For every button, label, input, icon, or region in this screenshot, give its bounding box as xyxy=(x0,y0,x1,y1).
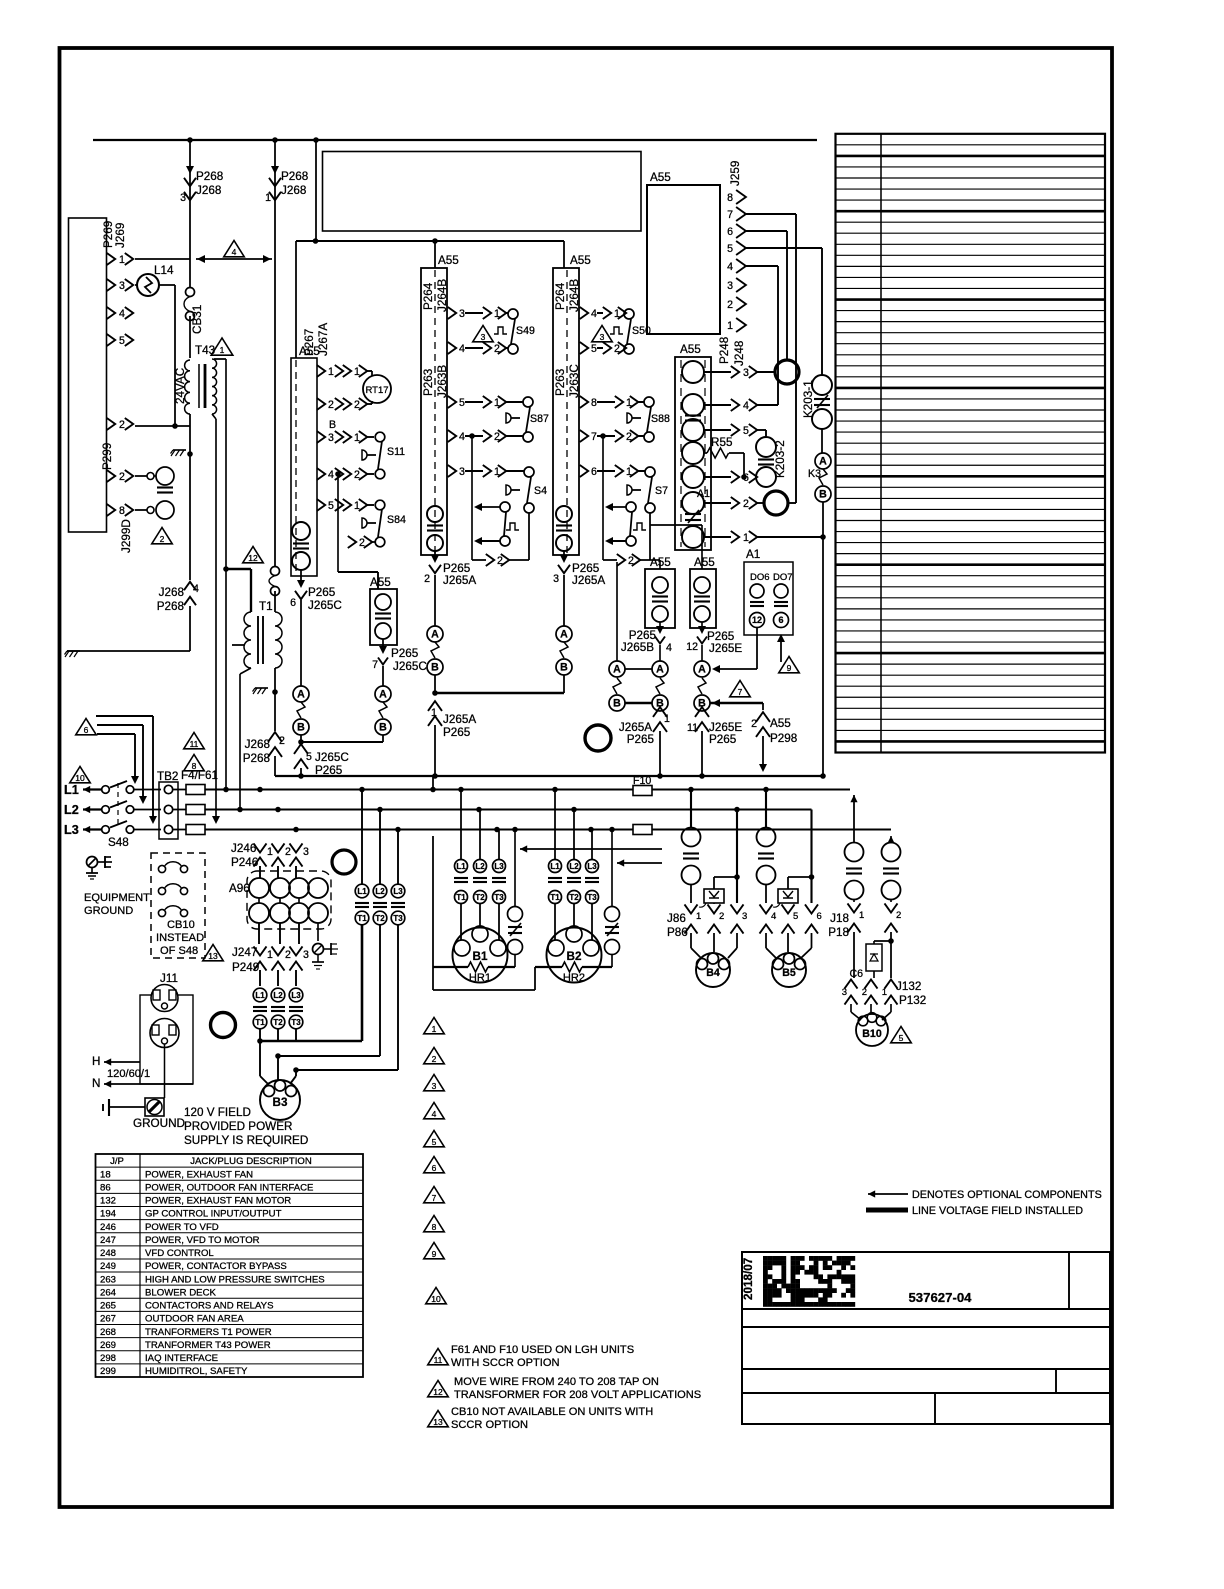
wire L3 row xyxy=(173,829,186,831)
aux contact diode B4 xyxy=(714,876,737,878)
svg-text:S49: S49 xyxy=(516,325,535,337)
svg-text:A55: A55 xyxy=(650,171,671,184)
svg-text:J/P: J/P xyxy=(110,1156,124,1167)
note triangle 7 list xyxy=(424,1187,445,1203)
svg-text:120 V FIELD: 120 V FIELD xyxy=(184,1106,251,1119)
connector A55 P298-2 drop xyxy=(710,702,763,705)
svg-text:L1: L1 xyxy=(456,862,466,871)
svg-text:P299: P299 xyxy=(101,443,114,470)
svg-text:5: 5 xyxy=(459,397,465,409)
svg-text:3: 3 xyxy=(600,332,605,342)
svg-text:120/60/1: 120/60/1 xyxy=(107,1068,150,1080)
note triangle 8 list xyxy=(424,1216,445,1232)
svg-text:POWER TO VFD: POWER TO VFD xyxy=(145,1222,219,1233)
wire field arrow B2 xyxy=(617,859,624,866)
svg-text:2: 2 xyxy=(432,1054,437,1064)
wire L1 row xyxy=(173,789,186,791)
contactor coil in J267A column xyxy=(292,522,310,540)
switch S11 xyxy=(375,432,385,442)
svg-text:L1: L1 xyxy=(357,887,367,896)
ring optional A96 xyxy=(332,850,356,874)
svg-text:LINE VOLTAGE FIELD INSTALLED: LINE VOLTAGE FIELD INSTALLED xyxy=(912,1205,1083,1217)
pins 3-1 col1 to S49 xyxy=(448,307,456,319)
motor B3 xyxy=(260,1080,300,1120)
svg-text:3: 3 xyxy=(743,367,749,379)
wire latch2 to box2 xyxy=(650,524,702,526)
svg-text:S84: S84 xyxy=(387,514,406,526)
svg-text:T3: T3 xyxy=(494,893,504,902)
contactor coil col1 xyxy=(427,506,443,522)
equipment ground symbol xyxy=(87,857,98,868)
motor B10 wires xyxy=(850,1004,852,1012)
note triangle 5 list xyxy=(424,1131,445,1147)
svg-text:A55: A55 xyxy=(570,254,591,267)
svg-text:N: N xyxy=(92,1077,100,1090)
svg-text:J11: J11 xyxy=(160,972,178,985)
switch S7 xyxy=(645,467,655,477)
svg-text:9: 9 xyxy=(432,1249,437,1259)
svg-text:6: 6 xyxy=(817,911,822,922)
svg-text:J268: J268 xyxy=(245,738,270,751)
pins 8-1 col2 to S88 xyxy=(580,396,588,408)
svg-text:A: A xyxy=(379,689,387,701)
svg-text:J246: J246 xyxy=(231,842,256,855)
svg-text:1: 1 xyxy=(664,713,670,725)
pins 4-2 col1 xyxy=(448,342,456,354)
svg-text:HUMIDITROL, SAFETY: HUMIDITROL, SAFETY xyxy=(145,1366,248,1377)
svg-text:7: 7 xyxy=(432,1193,437,1203)
svg-text:132: 132 xyxy=(100,1196,116,1207)
table jack/plug xyxy=(96,1154,364,1377)
contactor column B4 pin1 xyxy=(690,790,692,828)
motor B5 xyxy=(772,953,806,987)
svg-text:B: B xyxy=(560,662,568,674)
pin2 J248 xyxy=(704,502,731,504)
svg-text:265: 265 xyxy=(100,1301,116,1312)
ground A96 xyxy=(313,944,324,955)
svg-text:T1: T1 xyxy=(550,893,560,902)
wire ground run xyxy=(67,650,190,652)
svg-text:263: 263 xyxy=(100,1274,116,1285)
pin 5 J269 xyxy=(107,334,115,346)
note triangle 6 xyxy=(76,719,97,735)
svg-text:L14: L14 xyxy=(154,264,174,277)
ring optional pin2 xyxy=(764,491,788,515)
svg-text:J268: J268 xyxy=(159,586,184,599)
pin 8 J299D xyxy=(107,504,115,516)
svg-text:5: 5 xyxy=(119,335,125,347)
wire latch2 to pair1 xyxy=(616,562,618,661)
connector J265A pin1 mid to bus xyxy=(653,707,667,717)
svg-text:J263C: J263C xyxy=(568,364,581,398)
svg-text:SUPPLY IS REQUIRED: SUPPLY IS REQUIRED xyxy=(184,1134,308,1147)
svg-text:B: B xyxy=(297,722,305,734)
svg-text:GP CONTROL INPUT/OUTPUT: GP CONTROL INPUT/OUTPUT xyxy=(145,1209,282,1220)
wires to J132 xyxy=(853,932,855,978)
svg-text:24VAC: 24VAC xyxy=(174,368,187,404)
svg-text:4: 4 xyxy=(232,247,237,257)
connector J265C pin5 to bus xyxy=(294,744,308,754)
svg-text:3: 3 xyxy=(432,1081,437,1091)
ring optional J11 xyxy=(211,1013,236,1038)
svg-text:A55: A55 xyxy=(680,343,701,356)
svg-text:B: B xyxy=(431,662,439,674)
exit J265E-12 xyxy=(701,622,703,630)
relay K203-2 xyxy=(756,437,776,457)
pin 2 J269 xyxy=(107,418,115,430)
svg-text:4: 4 xyxy=(328,469,334,481)
svg-text:267: 267 xyxy=(100,1314,116,1325)
note triangle 3 col1 xyxy=(473,326,494,342)
svg-text:A: A xyxy=(613,664,621,676)
svg-text:P265: P265 xyxy=(308,586,336,599)
svg-text:A: A xyxy=(560,629,568,641)
svg-text:248: 248 xyxy=(100,1248,116,1259)
svg-text:2: 2 xyxy=(119,419,125,431)
svg-text:18: 18 xyxy=(100,1169,111,1180)
svg-text:264: 264 xyxy=(100,1287,117,1298)
svg-text:SCCR OPTION: SCCR OPTION xyxy=(451,1419,528,1431)
wire DO7 arrow up xyxy=(780,640,782,662)
capacitor C6 xyxy=(874,940,891,942)
svg-text:A: A xyxy=(297,689,305,701)
wire B-B link thick xyxy=(625,702,652,705)
svg-text:5: 5 xyxy=(306,751,312,763)
svg-text:P263: P263 xyxy=(554,369,567,396)
note triangle 4 xyxy=(224,241,245,257)
svg-text:P265: P265 xyxy=(443,726,471,739)
svg-text:269: 269 xyxy=(100,1340,116,1351)
svg-text:S4: S4 xyxy=(534,485,547,497)
svg-text:BLOWER DECK: BLOWER DECK xyxy=(145,1287,217,1298)
relay contact A-B left xyxy=(293,686,309,702)
wire under-box header y=241 xyxy=(296,240,564,242)
exit P265/J265A-2 col1 xyxy=(434,551,436,558)
wire latch2 to box1 xyxy=(650,559,660,561)
svg-text:11: 11 xyxy=(190,739,199,749)
svg-text:86: 86 xyxy=(100,1182,111,1193)
switch S84 xyxy=(375,500,385,510)
svg-text:CB10: CB10 xyxy=(167,919,195,931)
svg-text:11: 11 xyxy=(434,1355,443,1365)
pins 5-2 col2 xyxy=(580,342,588,354)
wire T43 secondary top lead xyxy=(214,358,226,360)
svg-text:4: 4 xyxy=(591,308,597,320)
svg-text:L1: L1 xyxy=(255,991,265,1000)
contactor coil col2 xyxy=(556,506,572,522)
svg-text:JACK/PLUG DESCRIPTION: JACK/PLUG DESCRIPTION xyxy=(190,1156,312,1167)
relay K203-1 xyxy=(812,375,832,395)
svg-text:J264B: J264B xyxy=(568,279,581,312)
svg-text:8: 8 xyxy=(727,192,733,204)
wire K31 to bus xyxy=(822,537,824,776)
svg-text:4: 4 xyxy=(727,261,733,273)
svg-text:J259: J259 xyxy=(729,161,742,186)
svg-text:S48: S48 xyxy=(108,836,129,849)
svg-text:J264B: J264B xyxy=(436,279,449,312)
pins 5-1 col1 to S87 xyxy=(448,396,456,408)
svg-text:A1: A1 xyxy=(697,488,710,500)
svg-text:12: 12 xyxy=(686,641,698,653)
capacitor column B2 xyxy=(611,830,613,908)
svg-text:EQUIPMENT: EQUIPMENT xyxy=(84,892,150,904)
motor B5 wires xyxy=(765,933,767,948)
note triangle 2 list xyxy=(424,1048,445,1064)
svg-text:J267A: J267A xyxy=(317,323,330,356)
note triangle 12 xyxy=(243,547,264,563)
note triangle 7 xyxy=(730,681,751,697)
svg-text:P248: P248 xyxy=(718,337,731,364)
svg-text:T2: T2 xyxy=(569,893,579,902)
svg-text:5: 5 xyxy=(591,343,597,355)
svg-text:1: 1 xyxy=(119,254,125,266)
svg-text:3: 3 xyxy=(459,308,465,320)
wire pin4 to A55 mid box xyxy=(337,474,339,572)
svg-text:TRANFORMER T43 POWER: TRANFORMER T43 POWER xyxy=(145,1340,271,1351)
pin 2 J299D xyxy=(107,470,115,482)
pin3 J248 xyxy=(704,371,731,373)
box J269 left connector xyxy=(69,218,107,532)
note 13 text xyxy=(428,1411,449,1427)
wire L2 row xyxy=(173,809,186,811)
svg-text:7: 7 xyxy=(727,209,733,221)
svg-text:2: 2 xyxy=(328,399,334,411)
svg-text:2: 2 xyxy=(896,910,901,921)
svg-text:10: 10 xyxy=(75,773,85,783)
switch S87 xyxy=(523,397,533,407)
svg-text:3: 3 xyxy=(459,466,465,478)
svg-text:P265: P265 xyxy=(391,647,419,660)
svg-text:8: 8 xyxy=(119,505,125,517)
aux contact diode B5 xyxy=(788,876,812,878)
svg-text:HR2: HR2 xyxy=(563,972,585,984)
svg-text:P268: P268 xyxy=(281,170,308,183)
note 12 text xyxy=(428,1381,449,1397)
svg-text:6: 6 xyxy=(778,615,783,625)
svg-text:J265A: J265A xyxy=(572,574,605,587)
svg-text:12: 12 xyxy=(752,615,762,625)
box CB10 optional xyxy=(151,853,205,958)
svg-text:F61 AND F10 USED ON LGH UNITS: F61 AND F10 USED ON LGH UNITS xyxy=(451,1344,634,1356)
svg-text:2: 2 xyxy=(743,498,749,510)
motor B4 xyxy=(696,953,730,987)
svg-text:P268: P268 xyxy=(196,170,223,183)
svg-text:1: 1 xyxy=(859,910,864,921)
svg-text:J18: J18 xyxy=(830,912,849,925)
svg-text:MOVE WIRE FROM 240 TO 208 TAP: MOVE WIRE FROM 240 TO 208 TAP ON xyxy=(454,1376,659,1388)
svg-text:2: 2 xyxy=(285,846,291,858)
pin5 J248 xyxy=(704,429,731,431)
wire control bus 24V xyxy=(275,775,823,777)
svg-text:S11: S11 xyxy=(387,446,405,458)
note triangle 2 xyxy=(152,528,173,544)
wire B4 pin3 from L2 xyxy=(736,810,738,904)
svg-text:A: A xyxy=(698,664,706,676)
wires B3 bypass links xyxy=(257,1038,263,1044)
wire HR1 element xyxy=(433,966,468,968)
svg-text:12: 12 xyxy=(433,1387,443,1397)
svg-text:GROUND: GROUND xyxy=(84,905,133,917)
svg-text:2: 2 xyxy=(279,735,285,747)
svg-text:L3: L3 xyxy=(393,887,403,896)
svg-text:J265A: J265A xyxy=(443,574,476,587)
svg-text:4: 4 xyxy=(459,343,465,355)
note triangle 5 B10 xyxy=(891,1027,912,1043)
note 11 text xyxy=(428,1349,449,1365)
connector J132/P132 xyxy=(845,979,858,988)
svg-text:P265: P265 xyxy=(709,733,737,746)
pin5 J267A to S84 xyxy=(317,499,325,511)
svg-text:L2: L2 xyxy=(273,991,283,1000)
svg-text:8: 8 xyxy=(591,397,597,409)
svg-text:T1: T1 xyxy=(357,914,367,923)
ground symbol left xyxy=(67,650,80,652)
svg-text:T2: T2 xyxy=(273,1018,283,1027)
svg-text:J268: J268 xyxy=(196,184,221,197)
svg-text:12: 12 xyxy=(248,553,258,563)
pins 3-1 col1 S4 xyxy=(448,465,456,477)
heater block B2 HR2 xyxy=(549,860,562,873)
svg-text:B5: B5 xyxy=(782,967,796,979)
svg-text:1: 1 xyxy=(220,345,225,355)
connector J268 pin4 xyxy=(184,582,196,590)
svg-text:OUTDOOR FAN AREA: OUTDOOR FAN AREA xyxy=(145,1314,244,1325)
pin 1 J269 xyxy=(107,253,115,265)
svg-text:B: B xyxy=(819,489,827,501)
svg-text:4: 4 xyxy=(743,400,749,412)
svg-text:3: 3 xyxy=(119,280,125,292)
svg-text:T2: T2 xyxy=(475,893,485,902)
ring optional pin3 xyxy=(775,360,799,384)
svg-text:1: 1 xyxy=(743,532,749,544)
svg-text:2: 2 xyxy=(719,911,724,922)
svg-text:A55: A55 xyxy=(370,576,391,589)
svg-text:CB10 NOT AVAILABLE ON UNITS WI: CB10 NOT AVAILABLE ON UNITS WITH xyxy=(451,1406,653,1418)
svg-text:5: 5 xyxy=(793,911,798,922)
svg-text:J269: J269 xyxy=(114,223,127,248)
svg-text:VFD CONTROL: VFD CONTROL xyxy=(145,1248,214,1259)
wire col2 B to link xyxy=(563,675,565,693)
pin4 J267A xyxy=(317,468,325,480)
svg-text:J265C: J265C xyxy=(308,599,342,612)
svg-text:3: 3 xyxy=(328,432,334,444)
svg-text:L2: L2 xyxy=(569,862,579,871)
svg-text:CONTACTORS AND RELAYS: CONTACTORS AND RELAYS xyxy=(145,1301,273,1312)
wire T43 primary bottom lead xyxy=(189,414,191,580)
svg-text:T2: T2 xyxy=(375,914,385,923)
note triangle 13 left xyxy=(203,945,224,961)
svg-text:T3: T3 xyxy=(393,914,403,923)
pins 7-2 col2 xyxy=(580,430,588,442)
svg-text:8: 8 xyxy=(192,761,197,771)
junction dots power rows xyxy=(223,787,229,793)
svg-text:GROUND: GROUND xyxy=(133,1117,185,1130)
wire pin2 to T43 line xyxy=(135,425,190,427)
table legend right xyxy=(836,134,1106,753)
fuse block L1L2L3-T1T2T3 B3 xyxy=(253,988,267,1002)
svg-text:DENOTES OPTIONAL COMPONENTS: DENOTES OPTIONAL COMPONENTS xyxy=(912,1189,1102,1201)
svg-text:P263: P263 xyxy=(422,369,435,396)
svg-text:L3: L3 xyxy=(64,823,79,837)
ground at T43 line xyxy=(187,451,193,457)
note triangle 10 xyxy=(70,767,91,783)
pin 4 J269 xyxy=(107,307,115,319)
svg-text:K203-2: K203-2 xyxy=(774,440,787,478)
svg-text:POWER, VFD TO MOTOR: POWER, VFD TO MOTOR xyxy=(145,1235,260,1246)
svg-text:B4: B4 xyxy=(706,967,720,979)
wire T1 left lead to L2 xyxy=(240,668,251,674)
svg-text:4: 4 xyxy=(432,1109,437,1119)
svg-text:TRANFORMERS T1 POWER: TRANFORMERS T1 POWER xyxy=(145,1327,272,1338)
svg-text:A55: A55 xyxy=(770,717,791,730)
relay AB col2 xyxy=(556,626,572,642)
svg-text:6: 6 xyxy=(432,1163,437,1173)
wire DO6 to pair3 xyxy=(756,628,758,669)
svg-text:1: 1 xyxy=(265,192,271,204)
wire A-A link xyxy=(625,668,652,670)
wire T1 right lead down xyxy=(274,668,276,692)
svg-text:T1: T1 xyxy=(456,893,466,902)
svg-text:RT17: RT17 xyxy=(365,385,388,396)
svg-text:H: H xyxy=(92,1055,100,1068)
svg-text:S7: S7 xyxy=(655,485,668,497)
svg-text:K203-1: K203-1 xyxy=(802,380,815,418)
latch network col1 xyxy=(471,436,473,560)
heater block B1 HR1 xyxy=(455,860,468,873)
breaker CB31 xyxy=(186,288,195,297)
svg-text:A: A xyxy=(656,664,664,676)
connector J265A pin1 to bus xyxy=(428,701,442,711)
svg-text:5: 5 xyxy=(727,243,733,255)
svg-text:J268: J268 xyxy=(281,184,306,197)
svg-text:S88: S88 xyxy=(651,413,670,425)
ground terminal hatched xyxy=(145,1098,164,1116)
svg-text:B: B xyxy=(613,698,621,710)
svg-text:5: 5 xyxy=(899,1033,904,1043)
svg-text:J248: J248 xyxy=(733,341,746,366)
switch S4 xyxy=(524,467,534,477)
svg-text:T1: T1 xyxy=(255,1018,265,1027)
exit P265/J265C-7 xyxy=(382,639,384,650)
wires J259 risers xyxy=(744,213,796,215)
note triangle 1 list xyxy=(424,1018,445,1034)
svg-text:P298: P298 xyxy=(770,732,797,745)
note triangle 3 list xyxy=(424,1075,445,1091)
pin6 J248 xyxy=(704,476,731,478)
pins 4-2 col1 lower xyxy=(448,430,456,442)
svg-text:L3: L3 xyxy=(587,862,597,871)
wire T43 secondary tap drop to L1 xyxy=(225,359,227,790)
wire B5 pin6 from L2 xyxy=(810,810,812,904)
svg-text:P264: P264 xyxy=(422,282,435,310)
svg-text:TRANSFORMER FOR 208 VOLT APPLI: TRANSFORMER FOR 208 VOLT APPLICATIONS xyxy=(454,1389,701,1401)
svg-text:6: 6 xyxy=(591,466,597,478)
svg-text:9: 9 xyxy=(787,663,792,673)
legend line voltage xyxy=(866,1208,908,1213)
note triangle 9 xyxy=(779,657,800,673)
motor B10 xyxy=(856,1014,888,1046)
bypass contactor column xyxy=(361,790,363,885)
legend optional components xyxy=(868,1190,875,1197)
page border frame xyxy=(60,48,1113,1507)
svg-text:7: 7 xyxy=(372,659,378,671)
svg-text:L1: L1 xyxy=(550,862,560,871)
pin3 J267A to S11 xyxy=(317,431,325,443)
svg-text:R55: R55 xyxy=(711,436,733,449)
svg-text:L3: L3 xyxy=(291,991,301,1000)
svg-text:OF S48: OF S48 xyxy=(160,945,198,957)
svg-text:POWER, EXHAUST FAN: POWER, EXHAUST FAN xyxy=(145,1169,253,1180)
